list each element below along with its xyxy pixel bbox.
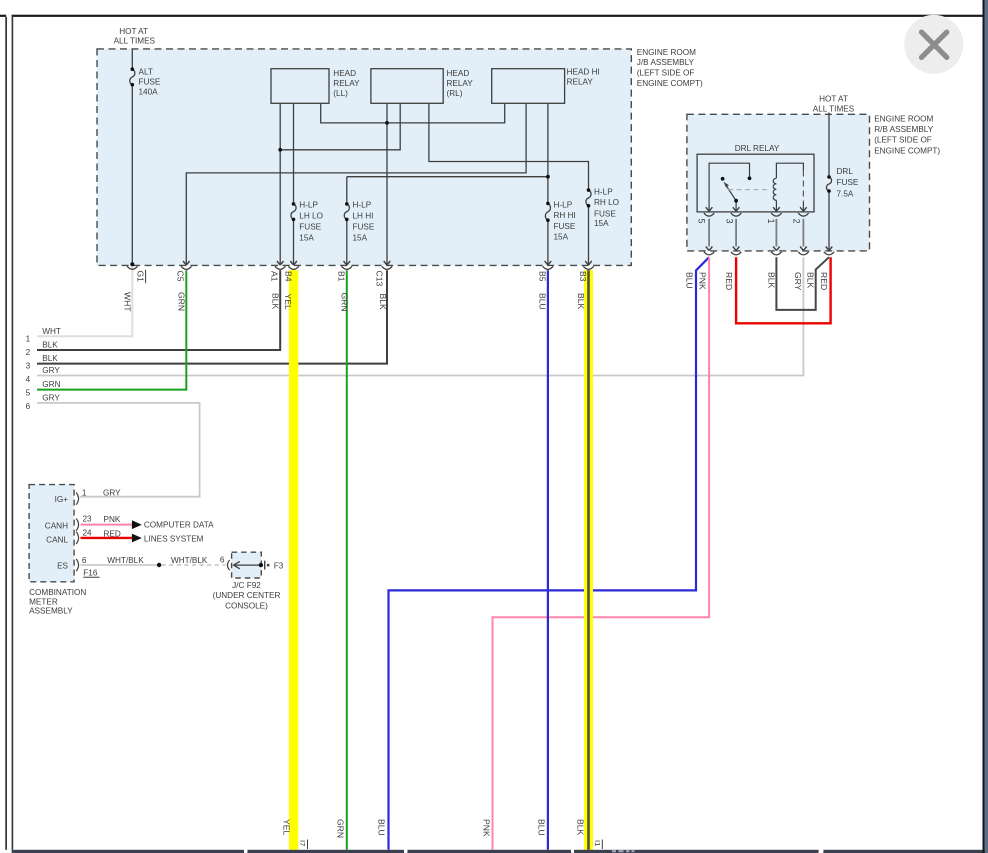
wire YEL/BLK B3 band	[584, 270, 593, 850]
svg-text:BLU: BLU	[684, 272, 694, 289]
svg-text:RH LO: RH LO	[594, 198, 619, 207]
svg-text:LH HI: LH HI	[353, 212, 374, 221]
svg-text:6: 6	[220, 555, 225, 564]
wire BLK B3 core	[587, 270, 590, 850]
svg-text:A1: A1	[270, 271, 280, 282]
label meter pin numbers and wire colors	[82, 489, 225, 565]
right window border	[983, 0, 985, 853]
node ES junction dot	[157, 563, 161, 567]
fuse H-LP RH HI 15A	[545, 203, 550, 265]
svg-text:5: 5	[697, 219, 707, 224]
svg-text:B3: B3	[578, 271, 588, 282]
fuse H-LP LH HI 15A	[344, 204, 349, 265]
svg-text:G1: G1	[136, 271, 146, 283]
svg-text:CONSOLE): CONSOLE)	[225, 602, 268, 611]
wire ALT fuse feed	[131, 49, 133, 68]
wire LL pin1 to A1	[279, 103, 281, 265]
svg-text:RH HI: RH HI	[554, 211, 576, 220]
DRL relay pin2 dashed segment	[802, 171, 804, 203]
svg-text:H-LP: H-LP	[554, 201, 573, 210]
svg-text:PNK: PNK	[482, 819, 492, 837]
svg-text:15A: 15A	[594, 219, 609, 228]
wire GRY pin4 long (left edge to DRL pin2)	[37, 257, 803, 375]
wire LL pin2 to LH LO fuse	[293, 103, 295, 202]
label connector I1 bottom	[593, 840, 603, 850]
DRL relay contact dots	[721, 177, 725, 181]
page frame left borders	[5, 17, 7, 850]
label HOT AT ALL TIMES right	[813, 94, 855, 113]
svg-text:ENGINE COMPT): ENGINE COMPT)	[637, 79, 703, 88]
svg-text:(LL): (LL)	[333, 89, 348, 98]
wire HI pin2 to C5	[186, 103, 526, 265]
svg-text:7.5A: 7.5A	[837, 190, 854, 199]
svg-text:3: 3	[724, 219, 734, 224]
combination meter dashed border	[29, 485, 74, 582]
svg-text:BLK: BLK	[270, 293, 280, 310]
label HEAD RELAY (RL)	[447, 69, 474, 98]
svg-text:FUSE: FUSE	[594, 209, 616, 218]
wire DRL pin stubs to R/B edge	[709, 219, 803, 247]
svg-text:BLK: BLK	[576, 293, 586, 310]
J/C F92 bracket	[227, 560, 229, 570]
svg-text:ENGINE ROOM: ENGINE ROOM	[637, 48, 696, 57]
wire GRN B1	[346, 270, 348, 850]
svg-text:GRY: GRY	[42, 394, 60, 403]
DRL relay pin 2 connector	[800, 207, 807, 211]
R/B dashed border	[687, 114, 870, 251]
bottom component band	[12, 850, 988, 853]
wire DRL fuse to R/B edge	[828, 193, 830, 251]
svg-text:BLK: BLK	[576, 819, 586, 836]
bottom band text fragments	[612, 850, 635, 852]
R/B edge connector pin5	[706, 247, 713, 251]
wire WHT pin1 (left edge to G1)	[37, 266, 132, 336]
J/C F92 internal arrow wire	[234, 564, 261, 566]
svg-text:1: 1	[26, 335, 31, 344]
J/C F92 box fill	[232, 552, 262, 578]
connector B3	[585, 261, 592, 265]
label connector G1	[136, 270, 146, 283]
wire RL pin2 to A1 net	[280, 103, 400, 150]
svg-text:RED: RED	[104, 529, 121, 538]
svg-text:I7: I7	[298, 840, 307, 846]
svg-text:6: 6	[82, 556, 87, 565]
svg-text:B1: B1	[336, 271, 346, 282]
wire RL pin3 to RH LO fuse	[429, 103, 589, 188]
label left edge pins 1-6	[26, 335, 31, 411]
svg-text:METER: METER	[29, 598, 58, 607]
R/B edge connector pin1	[773, 247, 780, 251]
label HOT AT ALL TIMES left	[114, 27, 156, 46]
svg-text:140A: 140A	[139, 88, 159, 97]
wire BLU B5	[547, 270, 549, 850]
svg-text:FUSE: FUSE	[837, 178, 859, 187]
wire GRN pin5 (left edge to C5)	[37, 270, 186, 389]
svg-text:YEL: YEL	[283, 294, 293, 310]
wire HI pin3 to RH HI fuse	[547, 103, 549, 202]
svg-text:H-LP: H-LP	[353, 200, 372, 209]
svg-text:WHT: WHT	[123, 292, 133, 312]
DRL relay coil	[773, 163, 803, 211]
arrow computer data 1	[132, 520, 142, 529]
fuse H-LP LH LO 15A	[291, 204, 296, 265]
svg-text:BLK: BLK	[806, 272, 816, 289]
svg-text:COMBINATION: COMBINATION	[29, 588, 86, 597]
svg-text:LH LO: LH LO	[299, 212, 323, 221]
connector B4	[290, 261, 297, 265]
svg-text:ENGINE COMPT): ENGINE COMPT)	[874, 146, 940, 155]
svg-text:DRL RELAY: DRL RELAY	[735, 144, 780, 153]
svg-text:CANH: CANH	[45, 521, 68, 530]
R/B edge connector DRL fuse	[826, 247, 833, 251]
wire ALT fuse to G1	[131, 86, 133, 264]
svg-text:6: 6	[26, 402, 31, 411]
wire GRY pin6 (left edge to combination meter IG+ pin1)	[37, 403, 200, 497]
svg-text:4: 4	[26, 375, 31, 384]
svg-text:C5: C5	[175, 271, 185, 282]
label ENGINE ROOM R/B ASSEMBLY	[874, 115, 940, 156]
svg-text:CANL: CANL	[46, 536, 68, 545]
label fuse H-LP LH HI	[353, 200, 375, 242]
svg-text:GRN: GRN	[42, 380, 60, 389]
svg-text:BLU: BLU	[377, 819, 387, 836]
svg-text:R/B ASSEMBLY: R/B ASSEMBLY	[874, 125, 934, 134]
label left edge wire colors	[42, 327, 61, 403]
svg-text:BLK: BLK	[42, 354, 58, 363]
label fuse H-LP RH LO	[594, 188, 619, 228]
svg-text:H-LP: H-LP	[594, 188, 613, 197]
wire WHT/BLK dashed to J/C F92	[162, 564, 226, 566]
svg-text:YEL: YEL	[282, 819, 292, 835]
svg-text:GRN: GRN	[336, 819, 346, 838]
connector A1	[277, 261, 284, 265]
svg-text:(UNDER CENTER: (UNDER CENTER	[213, 591, 281, 600]
svg-text:C13: C13	[375, 271, 385, 287]
R/B edge connector pin3	[733, 247, 740, 251]
svg-text:PNK: PNK	[104, 515, 121, 524]
svg-text:ENGINE ROOM: ENGINE ROOM	[874, 115, 933, 124]
svg-text:HEAD: HEAD	[447, 69, 470, 78]
svg-text:GRN: GRN	[177, 292, 187, 311]
node junction RH HI	[546, 175, 550, 179]
label combination meter pins	[45, 495, 69, 571]
svg-text:2: 2	[792, 219, 802, 224]
svg-text:WHT/BLK: WHT/BLK	[107, 556, 144, 565]
ALT fuse 140A	[130, 69, 135, 85]
wire RL pin1 to C13	[386, 103, 388, 265]
fuse H-LP RH LO 15A	[586, 190, 591, 265]
wire WHT/BLK ES solid	[81, 564, 159, 566]
svg-text:FUSE: FUSE	[139, 78, 161, 87]
svg-text:B5: B5	[538, 271, 548, 282]
svg-text:1: 1	[766, 219, 776, 224]
svg-text:(RL): (RL)	[447, 89, 463, 98]
svg-text:PNK: PNK	[698, 272, 708, 290]
svg-text:BLK: BLK	[767, 272, 777, 289]
svg-text:GRY: GRY	[103, 489, 121, 498]
svg-text:BLU: BLU	[538, 293, 548, 310]
wire DRL fuse feed	[828, 113, 830, 176]
label COMBINATION METER ASSEMBLY	[29, 588, 86, 616]
svg-text:B4: B4	[284, 271, 294, 282]
svg-text:IG+: IG+	[55, 495, 69, 504]
svg-text:2: 2	[26, 348, 31, 357]
wire RED CANL	[81, 537, 132, 539]
svg-text:J/B ASSEMBLY: J/B ASSEMBLY	[637, 58, 695, 67]
DRL relay pin 3 connector	[733, 207, 740, 211]
svg-text:FUSE: FUSE	[554, 222, 576, 231]
connector G1 bracket	[127, 266, 137, 269]
node junction RL pin1	[385, 121, 389, 125]
svg-text:F16: F16	[83, 569, 98, 578]
label ENGINE ROOM J/B ASSEMBLY	[637, 48, 703, 88]
J/C F92 pin tick F3	[264, 561, 266, 570]
ENGINE ROOM J/B ASSEMBLY box fill	[97, 49, 631, 266]
svg-text:GRY: GRY	[42, 366, 60, 375]
wire RED DRL pin3 to fuse	[736, 257, 831, 323]
svg-text:ALT: ALT	[139, 67, 153, 76]
J/C F92 dashed border	[232, 552, 262, 578]
svg-text:J/C F92: J/C F92	[232, 581, 261, 590]
svg-text:FUSE: FUSE	[353, 223, 375, 232]
svg-text:H-LP: H-LP	[299, 200, 318, 209]
svg-text:GRY: GRY	[793, 272, 803, 291]
DRL relay actuation dashed link	[728, 189, 770, 191]
wire BLK pin2 (left edge to A1)	[37, 270, 280, 350]
label connector I7 bottom	[298, 840, 308, 850]
svg-text:15A: 15A	[353, 233, 368, 242]
J/C F92 terminal dot	[259, 563, 263, 567]
wire LL pin3 to HI pin1	[321, 103, 505, 123]
head relay RL box	[371, 69, 443, 104]
svg-text:15A: 15A	[299, 233, 314, 242]
label HEAD HI RELAY	[567, 68, 600, 87]
DRL relay box	[697, 154, 814, 212]
J/B dashed border	[97, 49, 631, 266]
label HEAD RELAY (LL)	[333, 69, 360, 98]
svg-text:ALL TIMES: ALL TIMES	[813, 104, 855, 113]
svg-text:DRL: DRL	[837, 167, 854, 176]
connector B5	[545, 261, 552, 265]
svg-text:23: 23	[82, 515, 92, 524]
wire branch to LH HI fuse	[347, 177, 548, 203]
svg-text:3: 3	[26, 362, 31, 371]
node junction A1 net	[278, 148, 282, 152]
svg-text:WHT/BLK: WHT/BLK	[171, 556, 208, 565]
svg-text:ALL TIMES: ALL TIMES	[114, 37, 156, 46]
svg-text:RELAY: RELAY	[567, 78, 594, 87]
svg-text:LINES SYSTEM: LINES SYSTEM	[144, 534, 204, 543]
label DRL FUSE 7.5A	[837, 167, 859, 199]
connector C5	[183, 261, 190, 265]
R/B edge connector pin2	[800, 247, 807, 251]
svg-text:F3: F3	[274, 562, 284, 571]
close button	[904, 15, 963, 74]
wire PNK CANH	[81, 524, 132, 526]
svg-text:RED: RED	[724, 272, 734, 290]
svg-text:24: 24	[82, 529, 92, 538]
svg-text:HEAD HI: HEAD HI	[567, 68, 600, 77]
svg-text:ES: ES	[57, 561, 68, 570]
head hi relay box	[492, 69, 565, 104]
head relay LL box	[271, 69, 329, 104]
svg-text:5: 5	[26, 388, 31, 397]
node G1 terminal dot	[130, 262, 134, 266]
DRL relay pin 5 connector	[706, 207, 713, 211]
svg-text:FUSE: FUSE	[299, 223, 321, 232]
DRL relay switch arm arrowhead	[724, 182, 729, 188]
fuse DRL 7.5A	[826, 177, 831, 191]
wire BLK pin3 (left edge to C13)	[37, 270, 387, 363]
svg-text:HEAD: HEAD	[333, 69, 356, 78]
arrow computer data 2	[132, 534, 142, 543]
connector B1	[344, 261, 351, 265]
connector C13	[384, 261, 391, 265]
svg-text:(LEFT SIDE OF: (LEFT SIDE OF	[874, 136, 932, 145]
svg-text:15A: 15A	[554, 233, 569, 242]
svg-text:WHT: WHT	[42, 327, 61, 336]
COMBINATION METER ASSEMBLY box fill	[29, 485, 74, 582]
svg-text:ASSEMBLY: ASSEMBLY	[29, 607, 73, 616]
label fuse H-LP RH HI	[554, 201, 576, 242]
svg-text:HOT AT: HOT AT	[119, 27, 148, 36]
DRL relay pin 1 connector	[773, 207, 780, 211]
label F16	[83, 569, 99, 578]
svg-text:BLK: BLK	[378, 294, 388, 311]
svg-text:RELAY: RELAY	[333, 79, 360, 88]
ENGINE ROOM R/B ASSEMBLY box fill	[687, 114, 870, 251]
label COMPUTER DATA LINES SYSTEM	[144, 521, 214, 544]
page frame top border	[12, 15, 983, 17]
svg-text:RED: RED	[819, 272, 829, 290]
wire BLK DRL pin1 to fuse	[776, 257, 829, 310]
svg-text:I1: I1	[593, 840, 602, 846]
wire PNK DRL pin5 down-left	[493, 257, 710, 850]
label ALT FUSE 140A	[139, 67, 161, 96]
svg-text:1: 1	[82, 489, 87, 498]
svg-text:GRN: GRN	[340, 293, 350, 312]
svg-text:BLU: BLU	[537, 819, 547, 836]
svg-text:RELAY: RELAY	[447, 79, 474, 88]
label J/C F92 UNDER CENTER CONSOLE	[213, 581, 281, 610]
DRL relay switch	[709, 163, 749, 211]
combination meter pin brackets	[76, 493, 78, 572]
svg-text:(LEFT SIDE OF: (LEFT SIDE OF	[637, 68, 695, 77]
wire BLU DRL pin5 down-left	[389, 257, 710, 850]
wire YEL B4	[289, 270, 298, 850]
label fuse H-LP LH LO	[299, 200, 323, 242]
svg-text:HOT AT: HOT AT	[819, 94, 848, 103]
svg-text:BLK: BLK	[42, 341, 58, 350]
svg-text:COMPUTER DATA: COMPUTER DATA	[144, 521, 214, 530]
